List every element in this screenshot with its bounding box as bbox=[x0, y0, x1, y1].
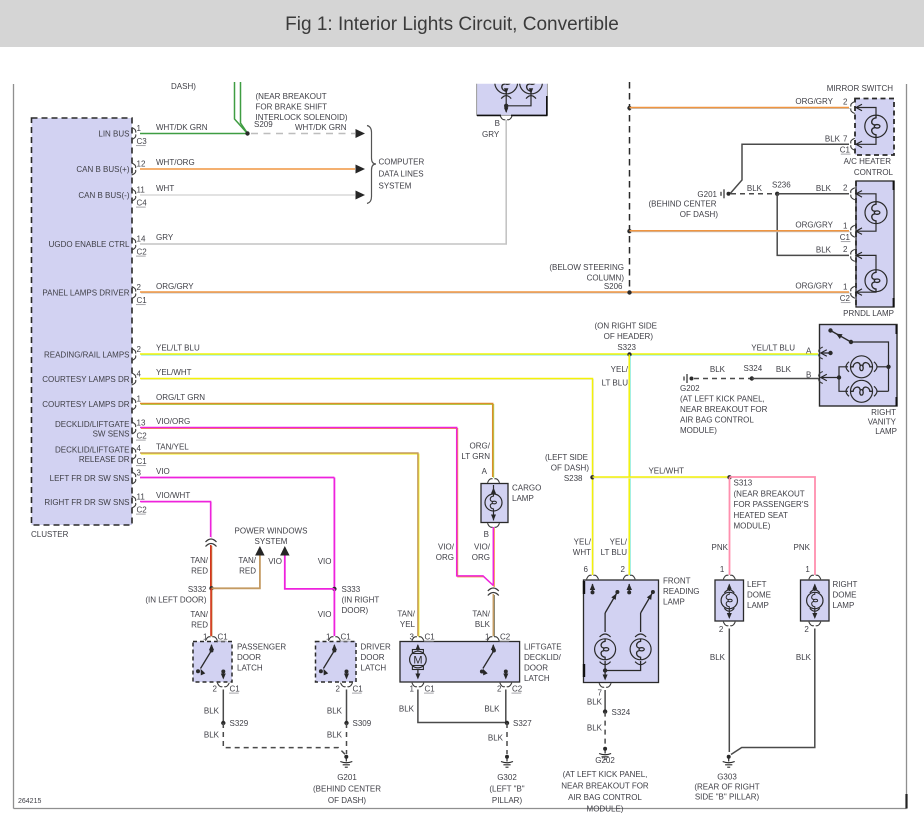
cluster pin 2 (READING/RAIL LAMPS) bbox=[44, 345, 142, 361]
vanity internal right rail bbox=[851, 342, 889, 391]
svg-text:LIFTGATE: LIFTGATE bbox=[524, 643, 562, 652]
front reading lamp box bbox=[584, 580, 659, 683]
svg-text:ORG/LT GRN: ORG/LT GRN bbox=[156, 393, 205, 402]
svg-text:2: 2 bbox=[336, 685, 341, 694]
svg-text:S327: S327 bbox=[513, 719, 532, 728]
wire TAN/YEL decklid release to liftgate latch pin 3 C1 bbox=[140, 443, 419, 638]
svg-text:SYSTEM: SYSTEM bbox=[255, 537, 288, 546]
svg-text:3: 3 bbox=[410, 633, 415, 642]
cluster pin 2 (PANEL LAMPS DRIVER) bbox=[42, 283, 147, 305]
svg-text:RED: RED bbox=[191, 567, 208, 576]
front reading lamp black edge marks bbox=[583, 581, 585, 677]
svg-text:MODULE): MODULE) bbox=[734, 522, 771, 531]
svg-text:LAMP: LAMP bbox=[747, 601, 769, 610]
svg-text:GRY: GRY bbox=[482, 130, 500, 139]
splice S329 bbox=[221, 719, 249, 728]
PRNDL bulb 2 bbox=[851, 249, 887, 298]
svg-text:(NEAR BREAKOUT: (NEAR BREAKOUT bbox=[734, 490, 805, 499]
svg-text:C1: C1 bbox=[218, 633, 229, 642]
passenger door latch box bbox=[193, 642, 232, 683]
wire WHT/ORG from CAN B BUS(+) bbox=[140, 158, 365, 174]
svg-text:INTERLOCK SOLENOID): INTERLOCK SOLENOID) bbox=[256, 113, 348, 122]
svg-text:HEATED SEAT: HEATED SEAT bbox=[734, 511, 788, 520]
right dome lamp box bbox=[801, 580, 830, 621]
svg-text:LAMP: LAMP bbox=[663, 598, 685, 607]
svg-text:YEL/LT BLU: YEL/LT BLU bbox=[751, 344, 795, 353]
wire BLK driver latch to S309 bbox=[327, 690, 347, 724]
svg-text:4: 4 bbox=[137, 370, 142, 379]
svg-text:G201: G201 bbox=[337, 773, 357, 782]
driver door latch box bbox=[316, 642, 357, 683]
svg-text:M: M bbox=[413, 655, 422, 667]
right dome bulb bbox=[807, 584, 823, 620]
wire BLK dashed G201 to S236 bbox=[731, 184, 775, 194]
AC heater internal wiring bottom bbox=[856, 137, 876, 148]
wire BLK liftgate pin 2 to S327 bbox=[484, 690, 505, 723]
right dome pin 1 bbox=[805, 565, 820, 579]
svg-text:C2: C2 bbox=[500, 633, 511, 642]
splice S332 bbox=[188, 585, 214, 594]
svg-text:C2: C2 bbox=[137, 506, 148, 515]
svg-text:11: 11 bbox=[137, 186, 146, 195]
AC heater internal wiring top bbox=[856, 104, 876, 115]
splice S236 bbox=[772, 181, 791, 197]
svg-text:BLK: BLK bbox=[747, 184, 763, 193]
splice S309 bbox=[344, 719, 371, 728]
svg-text:MIRROR SWITCH: MIRROR SWITCH bbox=[827, 84, 893, 93]
drawing frame border bbox=[13, 84, 15, 809]
label PASSENGER DOOR LATCH bbox=[237, 643, 286, 673]
wire BLK left dome to G303 bbox=[710, 629, 729, 753]
driver latch pin 1 C1 bbox=[326, 633, 351, 642]
svg-text:B: B bbox=[806, 371, 811, 380]
pin B of top module bbox=[495, 116, 513, 128]
svg-text:RED: RED bbox=[191, 621, 208, 630]
svg-text:TAN/YEL: TAN/YEL bbox=[156, 443, 189, 452]
wire PNK S313 to right dome lamp bbox=[730, 477, 816, 575]
svg-text:YEL/LT BLU: YEL/LT BLU bbox=[156, 344, 200, 353]
svg-text:B: B bbox=[495, 119, 500, 128]
svg-text:COURTESY LAMPS DR: COURTESY LAMPS DR bbox=[42, 400, 130, 409]
svg-text:NEAR BREAKOUT FOR: NEAR BREAKOUT FOR bbox=[561, 782, 649, 791]
svg-text:NEAR BREAKOUT FOR: NEAR BREAKOUT FOR bbox=[680, 405, 768, 414]
left dome pin 1 bbox=[720, 565, 735, 579]
svg-text:1: 1 bbox=[137, 395, 142, 404]
svg-text:BLK: BLK bbox=[484, 705, 500, 714]
svg-text:G302: G302 bbox=[497, 773, 517, 782]
wire PNK S313 to left dome lamp bbox=[712, 477, 730, 575]
svg-text:DOME: DOME bbox=[833, 591, 857, 600]
svg-text:B: B bbox=[484, 530, 489, 539]
passenger latch pin 1 C1 bbox=[203, 633, 228, 642]
svg-text:YEL: YEL bbox=[400, 620, 416, 629]
svg-text:YEL/: YEL/ bbox=[611, 365, 629, 374]
svg-text:S313: S313 bbox=[734, 479, 753, 488]
wire BLK dashed G202 to S324 bbox=[694, 365, 750, 379]
PRNDL pin labels C2 bbox=[840, 283, 851, 304]
svg-text:C1: C1 bbox=[425, 633, 436, 642]
svg-text:AIR BAG CONTROL: AIR BAG CONTROL bbox=[680, 416, 754, 425]
svg-text:2: 2 bbox=[843, 245, 848, 254]
svg-text:VANITY: VANITY bbox=[868, 418, 897, 427]
svg-text:DOME: DOME bbox=[747, 591, 771, 600]
splice S327 bbox=[505, 719, 532, 728]
svg-text:2: 2 bbox=[804, 625, 809, 634]
svg-text:DECKLID/LIFTGATE: DECKLID/LIFTGATE bbox=[55, 420, 130, 429]
svg-text:MODULE): MODULE) bbox=[680, 426, 717, 435]
svg-text:13: 13 bbox=[137, 419, 146, 428]
svg-text:6: 6 bbox=[584, 565, 589, 574]
label POWER WINDOWS SYSTEM bbox=[235, 527, 308, 547]
ground reference G202 inline near vanity bbox=[684, 374, 694, 383]
wire BLK passenger latch to S329 bbox=[204, 690, 223, 724]
svg-text:(BEHIND CENTER: (BEHIND CENTER bbox=[648, 200, 716, 209]
label COMPUTER DATA LINES SYSTEM bbox=[379, 158, 425, 191]
svg-text:ORG/: ORG/ bbox=[470, 442, 491, 451]
svg-text:LT GRN: LT GRN bbox=[461, 452, 490, 461]
label RIGHT VANITY LAMP bbox=[868, 408, 897, 436]
svg-text:VIO/: VIO/ bbox=[474, 543, 491, 552]
svg-text:BLK: BLK bbox=[488, 734, 504, 743]
svg-text:POWER WINDOWS: POWER WINDOWS bbox=[235, 527, 308, 536]
svg-text:BLK: BLK bbox=[710, 653, 726, 662]
svg-text:LT BLU: LT BLU bbox=[602, 379, 629, 388]
svg-text:C1: C1 bbox=[341, 633, 352, 642]
svg-text:BLK: BLK bbox=[475, 620, 491, 629]
svg-text:A: A bbox=[482, 467, 488, 476]
svg-text:DECKLID/: DECKLID/ bbox=[524, 653, 562, 662]
liftgate latch pin 1 C1 bottom bbox=[410, 683, 436, 694]
svg-text:264215: 264215 bbox=[18, 798, 41, 805]
svg-text:BLK: BLK bbox=[204, 731, 220, 740]
svg-text:FRONT: FRONT bbox=[663, 577, 691, 586]
PRNDL bulb 1 bbox=[851, 188, 887, 237]
wire VIO S333 to driver door latch pin 1 bbox=[318, 589, 335, 636]
svg-text:PNK: PNK bbox=[712, 543, 729, 552]
label A/C HEATER CONTROL bbox=[844, 157, 894, 177]
svg-text:OF DASH): OF DASH) bbox=[328, 796, 367, 805]
left dome bulb bbox=[721, 584, 737, 620]
cluster pin 11 (CAN B BUS(-)) bbox=[78, 186, 147, 208]
splice S313 bbox=[727, 475, 731, 479]
cluster pin 14 (UGDO ENABLE CTRL) bbox=[49, 235, 148, 257]
front reading pin 6 bbox=[584, 565, 599, 579]
vanity left rail bbox=[839, 367, 848, 392]
svg-text:(NEAR BREAKOUT: (NEAR BREAKOUT bbox=[256, 92, 327, 101]
svg-text:CONTROL: CONTROL bbox=[854, 168, 894, 177]
inline connector VIO/ORG to TAN/BLK bbox=[488, 588, 499, 591]
wire BLK S236 to PRNDL second pin 2 bbox=[777, 194, 849, 256]
label FRONT READING LAMP bbox=[663, 577, 699, 607]
svg-text:12: 12 bbox=[137, 160, 146, 169]
wire ORG/LT GRN courtesy lamps to cargo lamp pin A bbox=[140, 393, 494, 478]
svg-text:DRIVER: DRIVER bbox=[361, 643, 391, 652]
note near breakout for brake shift interlock solenoid bbox=[256, 92, 348, 122]
note left side of dash S238 bbox=[545, 453, 589, 483]
svg-text:FOR PASSENGER'S: FOR PASSENGER'S bbox=[734, 500, 809, 509]
svg-text:ORG: ORG bbox=[472, 553, 490, 562]
svg-text:TAN/: TAN/ bbox=[190, 610, 208, 619]
svg-text:CAN B BUS(-): CAN B BUS(-) bbox=[78, 191, 129, 200]
wire BLK dashed S309 to G201 ground bbox=[327, 723, 347, 754]
front reading switch 2 bbox=[627, 584, 655, 614]
front reading switch 1 bbox=[590, 584, 620, 614]
svg-text:READING: READING bbox=[663, 587, 699, 596]
svg-text:C1: C1 bbox=[137, 296, 148, 305]
ground reference G201 inline bbox=[697, 189, 730, 199]
mirror switch / AC heater control box bbox=[855, 99, 894, 156]
pin 7 of AC heater control bbox=[840, 135, 855, 155]
svg-text:LIN BUS: LIN BUS bbox=[98, 130, 129, 139]
svg-text:WHT: WHT bbox=[573, 548, 591, 557]
svg-text:C2: C2 bbox=[137, 248, 148, 257]
wire YEL/WHT S238 to S313 bbox=[593, 467, 731, 479]
svg-text:C1: C1 bbox=[137, 457, 148, 466]
svg-text:(ON RIGHT SIDE: (ON RIGHT SIDE bbox=[594, 322, 657, 331]
splice S324 bbox=[603, 708, 631, 717]
splice dot S206 top bbox=[627, 106, 631, 110]
svg-text:2: 2 bbox=[137, 283, 142, 292]
svg-text:1: 1 bbox=[805, 565, 810, 574]
wire BLK liftgate pin 1 to S327 bbox=[399, 690, 507, 723]
svg-text:LATCH: LATCH bbox=[524, 674, 550, 683]
svg-text:BLK: BLK bbox=[327, 731, 343, 740]
svg-text:UGDO ENABLE CTRL: UGDO ENABLE CTRL bbox=[49, 240, 130, 249]
label DRIVER DOOR LATCH bbox=[361, 643, 391, 673]
svg-text:LT BLU: LT BLU bbox=[601, 548, 628, 557]
wire BLK right dome to G303 bbox=[731, 629, 815, 755]
svg-text:2: 2 bbox=[621, 565, 626, 574]
svg-text:S324: S324 bbox=[612, 708, 631, 717]
splice S323 bbox=[627, 352, 631, 356]
passenger latch switch bbox=[196, 644, 226, 680]
svg-text:OF HEADER): OF HEADER) bbox=[604, 332, 654, 341]
liftgate latch pin 2 C2 bottom bbox=[497, 683, 523, 694]
wire YEL/LT BLU S323 down to front reading lamp pin 2 bbox=[601, 355, 631, 577]
svg-text:COMPUTER: COMPUTER bbox=[379, 158, 425, 167]
svg-text:PRNDL LAMP: PRNDL LAMP bbox=[843, 309, 894, 318]
svg-text:BLK: BLK bbox=[587, 724, 603, 733]
svg-text:A/C HEATER: A/C HEATER bbox=[844, 157, 892, 166]
cargo lamp pin B bbox=[484, 523, 500, 539]
svg-text:3: 3 bbox=[137, 469, 142, 478]
svg-text:RED: RED bbox=[239, 567, 256, 576]
svg-text:FOR BRAKE SHIFT: FOR BRAKE SHIFT bbox=[256, 103, 328, 112]
svg-text:G202: G202 bbox=[595, 756, 615, 765]
svg-text:DOOR: DOOR bbox=[361, 653, 385, 662]
left dome pin 2 bbox=[719, 622, 735, 634]
svg-text:C1: C1 bbox=[840, 233, 851, 242]
front reading pin 7 bbox=[598, 683, 612, 697]
svg-text:S333: S333 bbox=[342, 585, 361, 594]
svg-text:WHT/DK GRN: WHT/DK GRN bbox=[156, 123, 208, 132]
liftgate latch switch bbox=[480, 644, 508, 680]
svg-text:PNK: PNK bbox=[794, 543, 811, 552]
wire WHT/DK GRN dashed to computer data lines bbox=[251, 123, 365, 138]
svg-text:C2: C2 bbox=[137, 432, 148, 441]
wire VIO/ORG cargo lamp B down bbox=[472, 527, 495, 587]
svg-text:OF DASH): OF DASH) bbox=[680, 210, 719, 219]
svg-text:2: 2 bbox=[137, 345, 142, 354]
cargo lamp bulb bbox=[485, 485, 502, 521]
svg-text:1: 1 bbox=[720, 565, 725, 574]
PRNDL box corner marks bbox=[893, 181, 895, 307]
svg-text:CLUSTER: CLUSTER bbox=[31, 530, 69, 539]
svg-text:BLK: BLK bbox=[825, 135, 841, 144]
wire from dash (green pair) bbox=[235, 82, 248, 133]
svg-text:RIGHT: RIGHT bbox=[871, 408, 896, 417]
svg-text:BLK: BLK bbox=[776, 365, 792, 374]
vanity pin A bbox=[819, 347, 833, 359]
svg-text:(AT LEFT KICK PANEL,: (AT LEFT KICK PANEL, bbox=[680, 395, 765, 404]
vanity bulb 1 bbox=[846, 356, 891, 378]
svg-text:LEFT: LEFT bbox=[747, 580, 767, 589]
svg-text:C3: C3 bbox=[137, 137, 148, 146]
svg-text:14: 14 bbox=[137, 235, 146, 244]
liftgate latch pin 1 C2 top bbox=[485, 633, 511, 642]
lamp bulb 1 in top module bbox=[495, 71, 518, 94]
svg-text:ORG/GRY: ORG/GRY bbox=[795, 97, 833, 106]
svg-text:1: 1 bbox=[843, 283, 848, 292]
svg-text:PASSENGER: PASSENGER bbox=[237, 643, 286, 652]
svg-text:11: 11 bbox=[137, 493, 146, 502]
svg-text:VIO: VIO bbox=[156, 467, 170, 476]
svg-text:2: 2 bbox=[719, 625, 724, 634]
svg-text:VIO: VIO bbox=[268, 557, 282, 566]
svg-text:WHT: WHT bbox=[156, 184, 174, 193]
wire GRY from UGDO ENABLE CTRL to lamp B pin bbox=[140, 120, 506, 244]
svg-text:PANEL LAMPS DRIVER: PANEL LAMPS DRIVER bbox=[42, 289, 129, 298]
svg-text:C1: C1 bbox=[353, 685, 364, 694]
note G202 at left kick panel bbox=[680, 384, 768, 435]
note behind center of dash bbox=[648, 200, 718, 220]
svg-text:SIDE "B" PILLAR): SIDE "B" PILLAR) bbox=[695, 793, 760, 802]
cluster module box bbox=[32, 118, 133, 525]
svg-text:BLK: BLK bbox=[399, 705, 415, 714]
svg-text:1: 1 bbox=[410, 685, 415, 694]
svg-text:G202: G202 bbox=[680, 384, 700, 393]
svg-text:COURTESY LAMPS DR: COURTESY LAMPS DR bbox=[42, 375, 130, 384]
liftgate latch motor bbox=[410, 644, 427, 680]
svg-text:OF DASH): OF DASH) bbox=[551, 464, 590, 473]
svg-text:YEL/: YEL/ bbox=[574, 538, 592, 547]
PRNDL pin labels C1 bbox=[840, 222, 851, 243]
svg-text:RIGHT: RIGHT bbox=[833, 580, 858, 589]
svg-text:VIO/: VIO/ bbox=[438, 543, 455, 552]
svg-text:DOOR): DOOR) bbox=[342, 606, 369, 615]
note below steering column S206 bbox=[549, 263, 624, 291]
svg-text:ORG: ORG bbox=[436, 553, 454, 562]
svg-text:YEL/WHT: YEL/WHT bbox=[648, 467, 684, 476]
svg-text:BLK: BLK bbox=[796, 653, 812, 662]
cluster pin 12 (CAN B BUS(+)) bbox=[76, 160, 146, 176]
wire BLK front reading pin 7 to S324 bbox=[587, 690, 605, 712]
svg-text:7: 7 bbox=[598, 689, 603, 698]
svg-text:CARGO: CARGO bbox=[512, 484, 541, 493]
driver latch switch bbox=[319, 644, 349, 680]
svg-text:BLK: BLK bbox=[327, 707, 343, 716]
liftgate decklid door latch box bbox=[400, 642, 520, 683]
svg-text:LATCH: LATCH bbox=[237, 664, 263, 673]
right vanity lamp box bbox=[820, 325, 898, 407]
svg-text:SYSTEM: SYSTEM bbox=[379, 182, 412, 191]
ground G202 bbox=[561, 747, 649, 814]
top module internal wiring to pin B bbox=[501, 88, 536, 113]
wire TAN/RED connector to S332 bbox=[190, 545, 211, 589]
svg-text:BLK: BLK bbox=[816, 184, 832, 193]
wire BLK dashed S324 to G202 ground bbox=[587, 712, 605, 746]
front reading bulb 1 bbox=[595, 613, 616, 671]
right dome pin 2 bbox=[804, 622, 820, 634]
svg-text:(LEFT "B": (LEFT "B" bbox=[489, 785, 524, 794]
PRNDL lamp box bbox=[856, 181, 894, 307]
svg-text:C1: C1 bbox=[840, 146, 851, 155]
wire VIO/WHT right fr dr sw sns down bbox=[140, 491, 212, 538]
splice S324 right bbox=[744, 364, 763, 381]
svg-text:7: 7 bbox=[843, 135, 848, 144]
svg-text:PILLAR): PILLAR) bbox=[492, 796, 523, 805]
svg-text:S323: S323 bbox=[617, 343, 636, 352]
svg-text:(BEHIND CENTER: (BEHIND CENTER bbox=[313, 785, 381, 794]
svg-text:C1: C1 bbox=[425, 685, 436, 694]
ground G302 bbox=[489, 755, 524, 805]
label LEFT DOME LAMP bbox=[747, 580, 771, 610]
svg-text:TAN/: TAN/ bbox=[190, 556, 208, 565]
svg-text:YEL/: YEL/ bbox=[610, 538, 628, 547]
cluster pin 13 (DECKLID/LIFTGATE SW SENS) bbox=[55, 419, 147, 441]
svg-text:DASH): DASH) bbox=[171, 82, 196, 91]
wire BLK dashed S327 to G302 ground bbox=[488, 723, 507, 754]
svg-text:S332: S332 bbox=[188, 585, 207, 594]
vanity box corner marks bbox=[896, 325, 898, 406]
title bar bbox=[0, 0, 924, 47]
svg-text:VIO/ORG: VIO/ORG bbox=[156, 417, 190, 426]
svg-text:2: 2 bbox=[843, 98, 848, 107]
AC heater bulb bbox=[865, 115, 887, 137]
cluster pin 1 (LIN BUS) bbox=[98, 124, 147, 146]
wire WHT/DK GRN from LIN BUS bbox=[140, 123, 248, 134]
svg-text:WHT/DK GRN: WHT/DK GRN bbox=[295, 123, 347, 132]
svg-text:SW SENS: SW SENS bbox=[93, 430, 130, 439]
front reading pin 2 bbox=[621, 565, 636, 579]
wire YEL/WHT courtesy lamps to front reading pin 6 bbox=[140, 368, 594, 576]
svg-text:DATA LINES: DATA LINES bbox=[379, 170, 424, 179]
svg-text:READING/RAIL LAMPS: READING/RAIL LAMPS bbox=[44, 351, 130, 360]
svg-text:LATCH: LATCH bbox=[361, 664, 387, 673]
svg-text:2: 2 bbox=[213, 685, 218, 694]
wire VIO left fr dr sw sns to S333 bbox=[140, 467, 334, 589]
left dome lamp box bbox=[715, 580, 744, 621]
lamp bulb 2 in top module bbox=[520, 71, 543, 94]
svg-text:1: 1 bbox=[326, 633, 331, 642]
svg-text:C2: C2 bbox=[840, 294, 851, 303]
label LIFTGATE DECKLID/ DOOR LATCH bbox=[524, 643, 562, 684]
svg-text:TAN/: TAN/ bbox=[397, 610, 415, 619]
vanity pin B bbox=[819, 372, 841, 384]
wire ORG/GRY panel lamps driver to PRNDL pin 1 C2 bbox=[140, 282, 850, 294]
wire TAN/RED S332 to power windows system bbox=[212, 546, 265, 588]
svg-text:DOOR: DOOR bbox=[237, 653, 261, 662]
svg-text:(LEFT SIDE: (LEFT SIDE bbox=[545, 453, 588, 462]
unnamed lamp module at top (clipped) bbox=[477, 70, 548, 115]
label RIGHT DOME LAMP bbox=[833, 580, 858, 610]
svg-text:S324: S324 bbox=[744, 364, 763, 373]
svg-text:2: 2 bbox=[497, 685, 502, 694]
svg-text:LEFT FR DR SW SNS: LEFT FR DR SW SNS bbox=[50, 474, 130, 483]
svg-text:G303: G303 bbox=[717, 773, 737, 782]
svg-text:DOOR: DOOR bbox=[524, 664, 548, 673]
wire BLK from AC heater pin 7 to G201 bbox=[730, 135, 849, 194]
